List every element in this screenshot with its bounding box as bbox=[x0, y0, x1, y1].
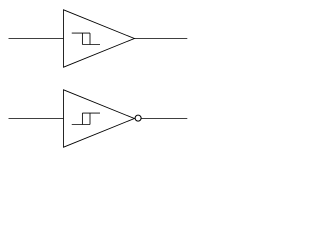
hysteresis mark: right vertical bbox=[89, 113, 91, 124]
inverter U2 (Schmitt-trigger inverter triangle) bbox=[64, 90, 135, 147]
hysteresis mark (rising) inside U2: bottom horizontal bbox=[72, 124, 90, 126]
hysteresis mark: right vertical bbox=[89, 33, 91, 44]
hysteresis mark: bottom horizontal bbox=[82, 44, 100, 46]
hysteresis mark: top horizontal bbox=[82, 112, 100, 114]
hysteresis mark (falling) inside U1: top horizontal bbox=[72, 32, 90, 34]
op-amp U1 (Schmitt-trigger buffer triangle) bbox=[64, 10, 135, 67]
wire: output of U1 bbox=[134, 38, 187, 40]
wire: input of U1 bbox=[9, 38, 64, 40]
hysteresis mark: left vertical bbox=[81, 113, 83, 124]
inversion bubble of U2 bbox=[135, 115, 141, 121]
hysteresis mark: left vertical bbox=[81, 33, 83, 44]
wire: input of U2 bbox=[9, 118, 64, 120]
wire: output of U2 bbox=[141, 118, 187, 120]
